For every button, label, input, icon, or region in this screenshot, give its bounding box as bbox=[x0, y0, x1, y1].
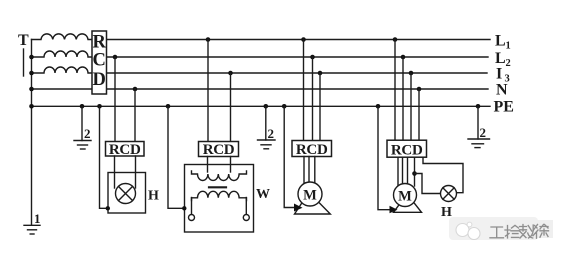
terminal circle right bbox=[243, 215, 249, 221]
RCD3 bbox=[292, 141, 332, 158]
node bus-N bbox=[29, 87, 34, 92]
net label L1 bbox=[495, 33, 511, 52]
motor M2 pedestal bbox=[394, 202, 422, 213]
node L1-b4 bbox=[393, 37, 398, 42]
wire PE to motor M1 frame bbox=[282, 104, 303, 212]
wire W secondary left terminal bbox=[191, 198, 193, 215]
net label L3 bbox=[496, 66, 510, 85]
node L1-b2 bbox=[206, 37, 211, 42]
net label L2 bbox=[495, 50, 511, 69]
node PE-gnd2c bbox=[476, 104, 481, 109]
transformer winding L1 bbox=[32, 34, 93, 40]
svg-text:M: M bbox=[303, 188, 317, 204]
wire b4 phase B bbox=[402, 57, 404, 140]
branch 1: wire tap N bbox=[133, 87, 138, 142]
transformer W core bbox=[209, 186, 227, 188]
ground 2 (middle) bbox=[258, 104, 276, 149]
svg-text:PE: PE bbox=[494, 99, 514, 116]
wire lamp H2 left feed bbox=[415, 174, 441, 194]
wire W secondary right terminal bbox=[245, 198, 247, 215]
wire RCD2 to W (right) bbox=[230, 157, 232, 173]
svg-text:1: 1 bbox=[34, 211, 41, 226]
node L2-b3 bbox=[310, 55, 315, 60]
wire b1 phase bbox=[114, 57, 116, 142]
svg-text:H: H bbox=[441, 205, 452, 220]
wire N bbox=[32, 88, 489, 90]
工 bbox=[490, 227, 504, 238]
node bus-L2 bbox=[29, 55, 34, 60]
wire left star bus bbox=[31, 40, 33, 226]
node bus-L3 bbox=[29, 71, 34, 76]
wire RCD1 to lamp (right) bbox=[135, 156, 137, 188]
wire RCD4 to motor c bbox=[407, 157, 409, 185]
watermark logo and text bbox=[449, 217, 553, 240]
wire RCD4 to motor b bbox=[402, 157, 404, 184]
terminal circle left bbox=[189, 215, 195, 221]
node bus-PE bbox=[29, 104, 34, 109]
wire b1 neutral bbox=[134, 89, 136, 142]
motor M1 pedestal bbox=[295, 202, 331, 214]
branch 2: wire tap L3 bbox=[228, 71, 233, 142]
node PE-b1 bbox=[97, 104, 102, 109]
wire RCD3 to motor b bbox=[308, 157, 310, 184]
wire b2 phase A bbox=[207, 40, 209, 142]
node L2-b4 bbox=[401, 55, 406, 60]
branch 4: wire tap N bbox=[417, 87, 422, 141]
transformer winding L2 bbox=[32, 51, 93, 57]
wire PE bbox=[32, 105, 491, 107]
控 bbox=[505, 225, 519, 238]
transformer W primary bbox=[192, 171, 247, 181]
wire RCD2 to W (left) bbox=[207, 157, 209, 173]
motor M2 bbox=[394, 184, 417, 207]
svg-text:2: 2 bbox=[84, 126, 91, 141]
node L3-b2 bbox=[228, 71, 233, 76]
RCD2 bbox=[199, 142, 239, 159]
node PE-b2 bbox=[166, 104, 171, 109]
wire L2 bbox=[107, 56, 489, 58]
transformer T bracket bbox=[23, 49, 25, 76]
branch 4: wire tap L3 bbox=[409, 71, 414, 141]
ground 1 bbox=[24, 211, 41, 234]
svg-text:H: H bbox=[148, 189, 159, 204]
svg-text:RCD: RCD bbox=[203, 142, 235, 158]
ground 2 (right) bbox=[468, 104, 490, 148]
wire lamp H2 right feed bbox=[423, 157, 463, 193]
node PE-gnd2a bbox=[80, 104, 85, 109]
lamp H2 bbox=[441, 186, 457, 202]
PE arrow M1 bbox=[294, 204, 303, 212]
svg-text:2: 2 bbox=[506, 58, 511, 69]
node N-b1 bbox=[133, 87, 138, 92]
watermark text 工控教练 (drawn strokes) bbox=[490, 225, 549, 239]
branch 3: wire tap L1 bbox=[301, 37, 306, 140]
lamp enclosure box bbox=[108, 173, 146, 214]
node L3-b3 bbox=[318, 71, 323, 76]
transformer winding L3 bbox=[32, 67, 93, 73]
node L2-b1 bbox=[113, 55, 118, 60]
ground 2 (left) bbox=[74, 104, 91, 149]
transformer W enclosure bbox=[185, 165, 254, 233]
branch 4: wire tap L2 bbox=[401, 55, 406, 141]
svg-text:L: L bbox=[495, 33, 506, 50]
svg-text:1: 1 bbox=[506, 41, 511, 52]
svg-text:RCD: RCD bbox=[296, 142, 328, 158]
wire b3 phase A bbox=[303, 40, 305, 141]
wire b4 phase A bbox=[394, 40, 396, 141]
node Wbox-PE bbox=[182, 206, 186, 210]
wire RCD1 to lamp (left) bbox=[114, 156, 116, 188]
PE arrow M2 bbox=[390, 206, 398, 214]
branch 2: wire tap L1 bbox=[206, 37, 211, 141]
motor M1 bbox=[298, 182, 322, 206]
wire b3 phase C bbox=[319, 73, 321, 141]
branch 3: wire tap L2 bbox=[310, 55, 315, 141]
教 bbox=[520, 225, 534, 239]
svg-text:N: N bbox=[496, 82, 508, 99]
svg-text:C: C bbox=[93, 50, 106, 70]
wire RCD3 to motor a bbox=[303, 157, 305, 185]
svg-text:M: M bbox=[398, 189, 412, 205]
node PE-b4 bbox=[376, 104, 381, 109]
wire b3 phase B bbox=[312, 57, 314, 141]
wire L3 bbox=[107, 72, 488, 74]
练 bbox=[533, 225, 549, 239]
main RCD U0 bbox=[92, 31, 107, 94]
RCD1 bbox=[106, 142, 145, 158]
branch 4: wire tap L1 bbox=[393, 37, 398, 140]
wire PE to motor M2 frame bbox=[376, 104, 398, 213]
node b4 lamp tap bbox=[412, 171, 417, 176]
wire RCD4 to motor a bbox=[397, 157, 399, 187]
node L3-b4 bbox=[409, 71, 414, 76]
wire b4 phase C bbox=[410, 73, 412, 140]
wire PE to lamp box bbox=[97, 104, 110, 211]
transformer W secondary bbox=[192, 191, 247, 200]
RCD4 bbox=[387, 140, 427, 158]
svg-text:I: I bbox=[496, 66, 502, 83]
svg-text:2: 2 bbox=[268, 126, 275, 141]
wire b2 phase B bbox=[230, 73, 232, 142]
wire RCD4 neutral out bbox=[414, 157, 416, 186]
branch 3: wire tap L3 bbox=[318, 71, 323, 141]
wire b4 neutral bbox=[418, 89, 420, 140]
node L1-b3 bbox=[301, 37, 306, 42]
lamp H1 bbox=[116, 184, 136, 204]
wire L1 bbox=[107, 39, 491, 41]
svg-text:W: W bbox=[256, 187, 270, 202]
node N-b4 bbox=[417, 87, 422, 92]
wire RCD3 to motor c bbox=[314, 157, 316, 185]
node PE-gnd2b bbox=[264, 104, 269, 109]
svg-text:2: 2 bbox=[480, 125, 487, 140]
svg-text:T: T bbox=[18, 32, 29, 49]
svg-text:D: D bbox=[93, 70, 106, 90]
svg-text:RCD: RCD bbox=[391, 142, 423, 158]
node PE-b3 bbox=[282, 104, 287, 109]
node lampbox-PE bbox=[106, 206, 110, 210]
wire PE to W box bbox=[166, 104, 187, 211]
svg-text:L: L bbox=[495, 50, 506, 67]
branch 1: wire tap L2 bbox=[113, 55, 118, 142]
